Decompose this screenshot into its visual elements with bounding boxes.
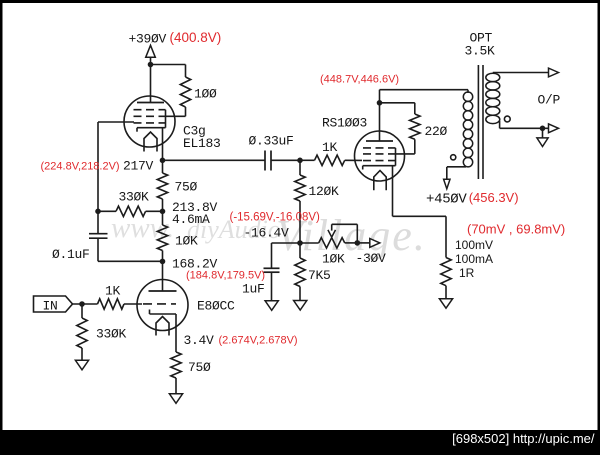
svg-text:IN: IN xyxy=(43,299,58,314)
svg-text:(448.7V,446.6V): (448.7V,446.6V) xyxy=(320,74,399,86)
svg-text:-16.4V: -16.4V xyxy=(244,226,290,241)
svg-text:33ØK: 33ØK xyxy=(96,327,127,342)
svg-text:3.5K: 3.5K xyxy=(465,44,496,59)
svg-text:33ØK: 33ØK xyxy=(119,190,150,205)
svg-text:1ØK: 1ØK xyxy=(175,234,198,249)
svg-text:75Ø: 75Ø xyxy=(188,360,211,375)
svg-text:+39ØV: +39ØV xyxy=(129,32,167,47)
svg-text:12ØK: 12ØK xyxy=(309,184,340,199)
svg-text:1R: 1R xyxy=(459,266,475,280)
svg-text:100mA: 100mA xyxy=(455,252,493,266)
svg-text:(456.3V): (456.3V) xyxy=(469,190,519,205)
svg-text:+45ØV: +45ØV xyxy=(426,192,467,208)
svg-text:-3ØV: -3ØV xyxy=(356,251,387,266)
svg-text:O/P: O/P xyxy=(538,93,561,108)
svg-text:E8ØCC: E8ØCC xyxy=(197,299,235,314)
svg-text:4.6mA: 4.6mA xyxy=(172,212,210,227)
svg-text:100mV: 100mV xyxy=(455,238,493,252)
svg-text:7K5: 7K5 xyxy=(308,268,331,283)
svg-text:(2.674V,2.678V): (2.674V,2.678V) xyxy=(219,335,298,347)
svg-text:3.4V: 3.4V xyxy=(184,333,215,348)
svg-text:RS1ØØ3: RS1ØØ3 xyxy=(322,116,367,131)
svg-text:Ø.33uF: Ø.33uF xyxy=(249,134,294,149)
svg-text:Ø.1uF: Ø.1uF xyxy=(52,247,90,262)
svg-text:EL183: EL183 xyxy=(183,136,221,151)
svg-text:(184.8V,179.5V): (184.8V,179.5V) xyxy=(186,269,265,281)
svg-text:22Ø: 22Ø xyxy=(425,124,448,139)
svg-text:1ØK: 1ØK xyxy=(322,252,345,267)
svg-text:(400.8V): (400.8V) xyxy=(170,30,222,45)
svg-text:(70mV , 69.8mV): (70mV , 69.8mV) xyxy=(467,221,565,236)
svg-text:1K: 1K xyxy=(322,140,338,155)
svg-text:217V: 217V xyxy=(123,159,154,174)
svg-text:75Ø: 75Ø xyxy=(175,180,198,195)
svg-text:[698x502] http://upic.me/: [698x502] http://upic.me/ xyxy=(452,431,595,446)
svg-text:1ØØ: 1ØØ xyxy=(194,87,217,102)
svg-text:1K: 1K xyxy=(105,284,121,299)
svg-text:1uF: 1uF xyxy=(242,282,265,297)
svg-text:(-15.69V,-16.08V): (-15.69V,-16.08V) xyxy=(230,211,321,223)
svg-text:(224.8V,218.2V): (224.8V,218.2V) xyxy=(41,161,120,173)
